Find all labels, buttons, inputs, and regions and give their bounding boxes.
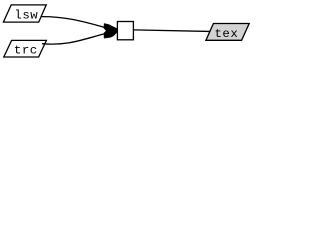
svg-text:lsw: lsw — [14, 8, 38, 22]
svg-text:tex: tex — [214, 27, 238, 41]
svg-text:trc: trc — [14, 44, 38, 58]
